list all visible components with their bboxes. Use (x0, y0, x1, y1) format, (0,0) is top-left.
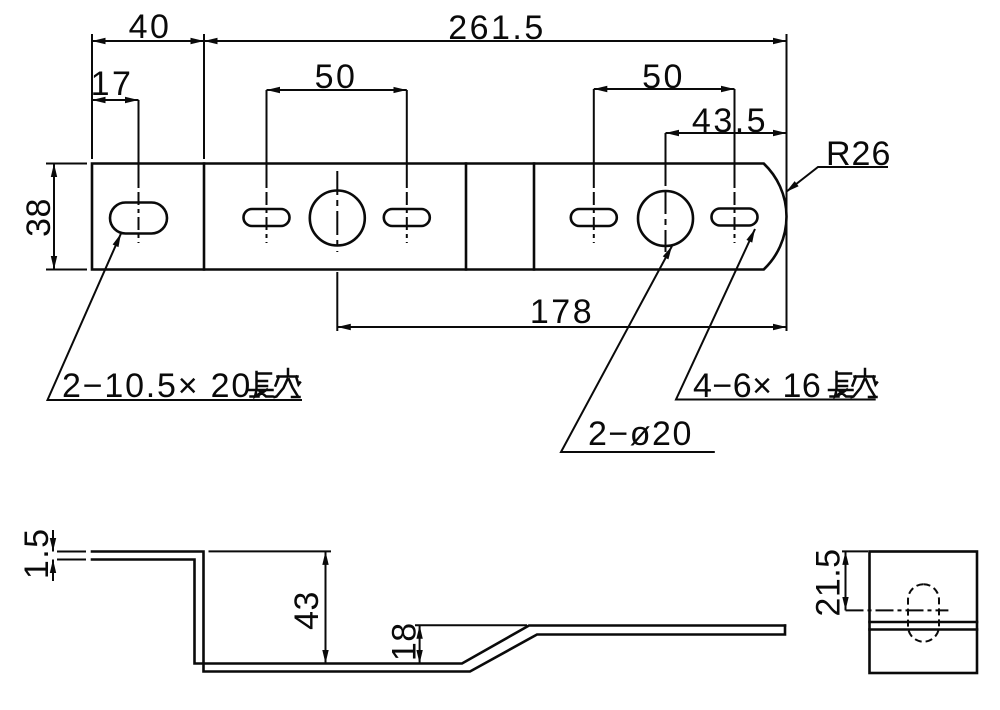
dim 38 (53, 164, 55, 270)
centerline slot no.1 (266, 90, 268, 188)
dim 43 (325, 551, 327, 663)
dim 50 left (267, 89, 407, 91)
dim 43 extension (209, 550, 332, 552)
svg-text:178: 178 (530, 293, 594, 331)
centerline slot no.3 (593, 89, 595, 188)
plate outline top view with R26 rounded right end (92, 164, 787, 270)
svg-text:2−ø20: 2−ø20 (588, 415, 693, 453)
dim 18 extension (415, 624, 527, 626)
centerline slot no.2 (406, 90, 408, 188)
side view outer contour (92, 552, 785, 672)
side view inner contour (92, 560, 785, 664)
dim 21.5 extension (842, 550, 868, 552)
end view strip edge bottom (870, 628, 978, 631)
hole dia20 no.2 (638, 191, 693, 246)
slot centerline horizontal (846, 609, 949, 611)
slot 6x16 no.4 (712, 209, 758, 226)
dim 17 (92, 99, 139, 101)
hole dia20 no.1 (310, 191, 365, 246)
svg-text:261.5: 261.5 (448, 9, 546, 47)
dim 18 (419, 625, 421, 663)
dim 40 (92, 40, 204, 42)
kanji nagaana right label (829, 369, 877, 397)
extension line left edge (91, 34, 93, 159)
bend line left (203, 164, 206, 270)
svg-text:1.5: 1.5 (18, 527, 56, 579)
bend line middle left (465, 164, 468, 270)
centerline slot no.4 (734, 89, 736, 188)
leader label 2-dia20 (561, 246, 715, 452)
svg-text:38: 38 (20, 198, 58, 237)
centerline hole no.2 (665, 133, 667, 186)
dim 1.5 extension lines (57, 551, 86, 553)
svg-text:17: 17 (91, 65, 134, 103)
centerline hole no.1 / 178 extension (336, 171, 338, 252)
svg-text:43: 43 (288, 591, 326, 630)
bend line middle right (533, 164, 536, 270)
dim 178 (337, 326, 786, 328)
svg-text:2−10.5× 20: 2−10.5× 20 (62, 367, 252, 405)
svg-text:50: 50 (315, 58, 358, 96)
hidden slot 10.5x20 dashed (908, 584, 939, 642)
kanji nagaana left label (249, 369, 300, 397)
svg-text:50: 50 (642, 58, 685, 96)
end view strip edge top (870, 621, 978, 624)
svg-text:21.5: 21.5 (810, 548, 848, 616)
slot 6x16 no.2 (384, 209, 430, 226)
slot 6x16 no.3 (571, 209, 617, 226)
svg-text:4−6× 16: 4−6× 16 (693, 367, 821, 405)
svg-text:18: 18 (386, 622, 424, 661)
svg-text:R26: R26 (826, 135, 891, 173)
extension line bend x204 (203, 34, 205, 159)
dim 1.5 (52, 530, 54, 552)
dim 21.5 (845, 551, 847, 610)
slot 6x16 no.1 (244, 209, 290, 226)
svg-text:40: 40 (129, 8, 172, 46)
dim 43.5 (666, 132, 787, 134)
end view outline (870, 552, 978, 674)
centerline slot left (138, 100, 140, 188)
leader R26 (786, 167, 888, 192)
leader label slot 10.5x20 (48, 234, 303, 401)
dim 261.5 (204, 40, 787, 42)
extension line right end (786, 34, 788, 331)
slot 10.5x20 left end (110, 203, 167, 234)
svg-text:43.5: 43.5 (692, 102, 768, 140)
dim 50 right (594, 88, 735, 90)
dim 38 extension lines (46, 163, 87, 165)
leader label slot 6x16 (676, 229, 876, 400)
